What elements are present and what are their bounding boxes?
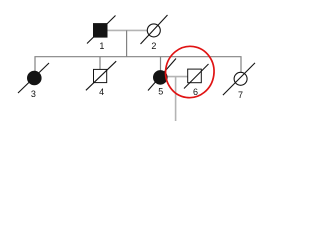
wire: sibship line (35, 57, 241, 73)
person 7: female, deceased (223, 63, 255, 100)
person 5: affected female, deceased (148, 59, 176, 97)
wire: drop to person 5 (160, 57, 162, 71)
person 4: male, deceased (86, 61, 116, 97)
wire: descent line below couple 5-6 (175, 77, 177, 121)
svg-text:4: 4 (99, 87, 104, 97)
person 1: affected male, deceased (87, 16, 116, 51)
person 2: female, deceased (141, 15, 168, 51)
wire: couple line between 1 and 2 (107, 29, 147, 31)
highlight: red ellipse around person 6 (162, 43, 217, 101)
wire: couple line between 5 and 6 (167, 76, 189, 78)
person 6: male, deceased, highlighted (184, 64, 209, 97)
person 3: affected female, deceased (18, 63, 49, 99)
wire: drop to person 4 (99, 57, 101, 70)
svg-text:2: 2 (151, 41, 156, 51)
svg-text:1: 1 (99, 41, 104, 51)
wire: descent drop from couple 1-2 to sibship line (126, 30, 128, 56)
svg-text:5: 5 (158, 87, 163, 97)
svg-text:7: 7 (238, 90, 243, 100)
svg-text:3: 3 (31, 89, 36, 99)
